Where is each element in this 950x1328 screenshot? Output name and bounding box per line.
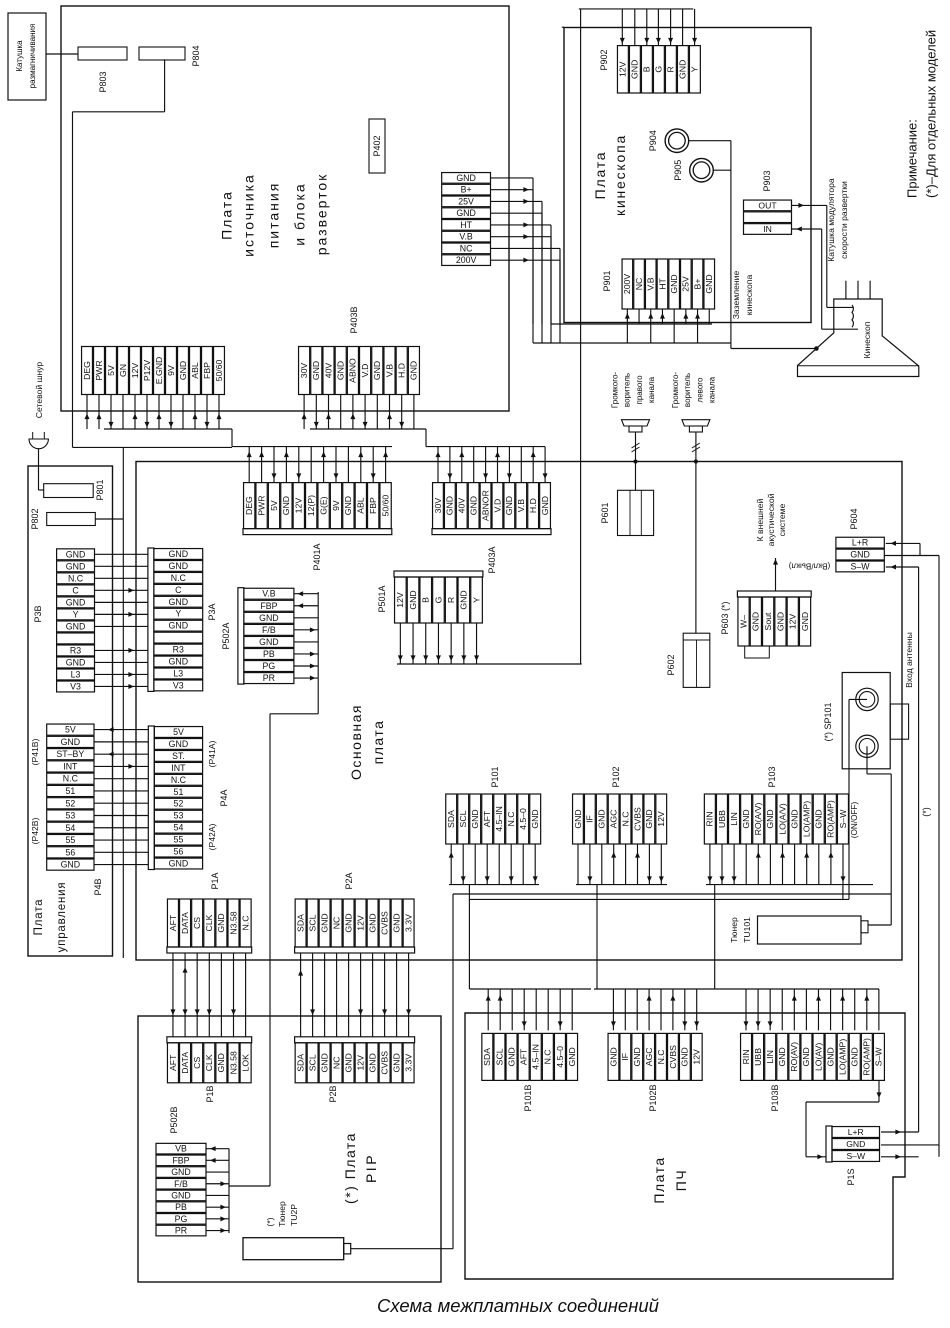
- svg-text:(P42B): (P42B): [30, 817, 40, 844]
- svg-text:GND: GND: [336, 361, 346, 380]
- svg-text:Кинескоп: Кинескоп: [862, 321, 872, 358]
- svg-text:PG: PG: [263, 661, 276, 671]
- svg-text:25V: 25V: [458, 196, 474, 206]
- wire P903 OUT to modulation coil: [792, 203, 854, 308]
- svg-text:(ON/OFF): (ON/OFF): [850, 802, 859, 839]
- wire plug to P801: [38, 449, 40, 490]
- svg-text:CS: CS: [192, 1057, 202, 1069]
- main board outline: [136, 462, 902, 961]
- wires P502A to bus: [229, 591, 318, 1186]
- svg-text:12V: 12V: [130, 363, 140, 379]
- svg-text:GND: GND: [169, 739, 189, 749]
- svg-text:40V: 40V: [323, 363, 333, 379]
- svg-text:CVBS: CVBS: [379, 911, 389, 935]
- svg-text:12V: 12V: [692, 1049, 702, 1065]
- svg-text:GND: GND: [66, 549, 86, 559]
- svg-text:IF: IF: [620, 1053, 630, 1061]
- svg-text:GND: GND: [678, 60, 688, 79]
- svg-text:P905: P905: [673, 160, 683, 181]
- connector P1S: [826, 1126, 880, 1186]
- P603 tab: [745, 646, 770, 658]
- svg-text:B: B: [421, 597, 431, 603]
- connector P802: [47, 513, 96, 526]
- svg-text:SCL: SCL: [307, 1054, 317, 1071]
- svg-text:GND: GND: [540, 496, 550, 515]
- svg-text:SCL: SCL: [458, 810, 468, 827]
- wires P403B left to bus: [85, 395, 233, 447]
- svg-text:ST–BY: ST–BY: [56, 749, 84, 759]
- svg-text:V.B: V.B: [459, 232, 473, 242]
- svg-text:P103B: P103B: [770, 1084, 780, 1111]
- right speaker wire: [635, 432, 637, 490]
- svg-text:N.C: N.C: [63, 774, 79, 784]
- connector P103: [704, 794, 848, 844]
- connector P1A: [167, 899, 252, 953]
- svg-text:(P41B): (P41B): [30, 738, 40, 765]
- connector P101: [446, 794, 541, 844]
- svg-text:GND: GND: [850, 1047, 860, 1066]
- svg-text:ПЧ: ПЧ: [673, 1169, 689, 1191]
- svg-text:AFT: AFT: [482, 810, 492, 827]
- svg-text:GND: GND: [66, 621, 86, 631]
- svg-text:PWR: PWR: [256, 495, 266, 515]
- svg-text:P4A: P4A: [219, 789, 229, 806]
- resistor P804: [139, 47, 185, 60]
- svg-text:правого: правого: [635, 375, 644, 405]
- svg-text:управления: управления: [56, 882, 68, 953]
- svg-text:RIN: RIN: [705, 812, 715, 827]
- wires into P403A: [436, 447, 548, 483]
- svg-text:SCL: SCL: [494, 1048, 504, 1065]
- svg-text:GND: GND: [789, 809, 799, 828]
- svg-text:SDA: SDA: [295, 914, 305, 932]
- svg-text:SCL: SCL: [307, 914, 317, 931]
- svg-text:GND: GND: [319, 1053, 329, 1072]
- svg-text:GND: GND: [391, 913, 401, 932]
- svg-text:Громкого-: Громкого-: [611, 372, 620, 409]
- wires P502B to bus: [206, 1146, 229, 1233]
- svg-text:40V: 40V: [457, 498, 467, 514]
- svg-text:4.5–0: 4.5–0: [518, 808, 528, 830]
- svg-text:GND: GND: [408, 590, 418, 609]
- svg-text:200V: 200V: [456, 255, 477, 265]
- wire SP101 to TU101: [867, 746, 891, 925]
- svg-text:LO(AV): LO(AV): [813, 1043, 823, 1071]
- svg-text:FBP: FBP: [260, 601, 277, 611]
- svg-text:LOK: LOK: [240, 1054, 250, 1072]
- wire ON/OFF route to SP101: [469, 699, 867, 899]
- svg-text:P402: P402: [372, 135, 382, 156]
- svg-text:H.D: H.D: [397, 363, 407, 378]
- svg-text:акустической: акустической: [766, 493, 776, 546]
- svg-text:GND: GND: [459, 590, 469, 609]
- svg-text:PB: PB: [175, 1202, 187, 1212]
- svg-text:Y: Y: [73, 609, 79, 619]
- wires P403B right to bus: [302, 395, 426, 447]
- svg-text:GND: GND: [61, 860, 81, 870]
- svg-text:12V: 12V: [788, 614, 798, 630]
- svg-text:AFT: AFT: [168, 914, 178, 931]
- svg-text:GND: GND: [445, 496, 455, 515]
- wire bus to P401A: [232, 446, 392, 448]
- svg-text:H.D: H.D: [528, 498, 538, 513]
- CRT board outline: [564, 28, 811, 323]
- connector P41A/P42A: [148, 726, 202, 870]
- svg-text:INT: INT: [171, 763, 186, 773]
- svg-text:P1B: P1B: [205, 1085, 215, 1102]
- svg-text:GND: GND: [846, 1139, 865, 1149]
- svg-text:PR: PR: [263, 673, 275, 683]
- svg-text:FBP: FBP: [368, 497, 378, 514]
- svg-text:SDA: SDA: [482, 1048, 492, 1066]
- wire P103B S-W to P1S: [806, 1080, 882, 1159]
- svg-text:RO(AMP): RO(AMP): [862, 1038, 872, 1076]
- connector P41B/P42B: [47, 724, 94, 870]
- svg-text:GND: GND: [850, 550, 870, 560]
- svg-text:S–W: S–W: [874, 1047, 884, 1067]
- connector P101B: [482, 1033, 578, 1080]
- mains plug symbol: [29, 432, 48, 449]
- svg-text:скорости развертки: скорости развертки: [839, 181, 849, 259]
- svg-text:NC: NC: [460, 243, 473, 253]
- svg-text:PG: PG: [175, 1214, 188, 1224]
- svg-text:12V: 12V: [355, 915, 365, 931]
- svg-text:Тюнер: Тюнер: [729, 917, 739, 943]
- svg-text:FBP: FBP: [202, 362, 212, 379]
- svg-text:5V: 5V: [173, 727, 184, 737]
- svg-text:GND: GND: [169, 561, 189, 571]
- svg-text:Сетевой шнур: Сетевой шнур: [34, 362, 44, 419]
- svg-text:P403A: P403A: [487, 546, 497, 573]
- svg-text:GND: GND: [468, 496, 478, 515]
- svg-text:V.B: V.B: [262, 589, 276, 599]
- svg-text:NC: NC: [331, 1057, 341, 1070]
- wires P1S right: [881, 1130, 939, 1160]
- connector P501A: [394, 571, 483, 623]
- connector P502A: [221, 588, 294, 684]
- svg-text:ABNO: ABNO: [348, 358, 358, 383]
- svg-text:12V: 12V: [618, 61, 628, 77]
- svg-text:плата: плата: [370, 720, 386, 765]
- svg-text:CVBS: CVBS: [668, 1045, 678, 1069]
- svg-text:5V: 5V: [269, 500, 279, 511]
- svg-text:P101B: P101B: [523, 1084, 533, 1111]
- svg-text:4.5–IN: 4.5–IN: [494, 806, 504, 832]
- svg-text:(*) SP101: (*) SP101: [823, 702, 833, 741]
- svg-text:DATA: DATA: [180, 1052, 190, 1074]
- svg-text:GND: GND: [470, 809, 480, 828]
- connector P403A: [432, 483, 551, 535]
- svg-text:ABL: ABL: [190, 362, 200, 379]
- svg-text:(Вкл/Выкл): (Вкл/Выкл): [789, 562, 831, 571]
- svg-text:N.C: N.C: [171, 775, 187, 785]
- svg-text:12V: 12V: [656, 811, 666, 827]
- svg-text:P2B: P2B: [328, 1085, 338, 1102]
- svg-text:P4B: P4B: [93, 878, 103, 895]
- svg-text:P401A: P401A: [312, 543, 322, 570]
- connector P601: [618, 490, 654, 535]
- svg-text:(*): (*): [265, 1217, 275, 1226]
- svg-text:размагничивания: размагничивания: [28, 24, 37, 89]
- svg-text:Громкого-: Громкого-: [671, 372, 680, 409]
- svg-text:50/60: 50/60: [380, 495, 390, 517]
- svg-text:E.GND: E.GND: [154, 357, 164, 385]
- svg-text:Y: Y: [690, 66, 700, 72]
- resistor P803: [78, 47, 127, 60]
- svg-text:P901: P901: [602, 270, 612, 291]
- svg-text:S–W: S–W: [851, 561, 871, 571]
- svg-text:NC: NC: [634, 278, 644, 291]
- IF board outline: [465, 1013, 905, 1279]
- svg-text:GND: GND: [169, 549, 189, 559]
- svg-text:CLK: CLK: [204, 1054, 214, 1071]
- connector P403B left half: [82, 347, 225, 395]
- connector P401A: [243, 483, 392, 535]
- svg-text:воритель: воритель: [623, 373, 632, 407]
- svg-text:TU2P: TU2P: [289, 1204, 299, 1226]
- svg-text:GND: GND: [216, 913, 226, 932]
- svg-text:GND: GND: [216, 1053, 226, 1072]
- svg-text:Y: Y: [471, 597, 481, 603]
- svg-text:GND: GND: [680, 1047, 690, 1066]
- svg-text:N.C: N.C: [171, 573, 187, 583]
- wires P103 down: [706, 844, 873, 989]
- svg-text:GND: GND: [169, 859, 189, 869]
- svg-text:RO(AV): RO(AV): [789, 1042, 799, 1072]
- svg-text:кинескопа: кинескопа: [612, 134, 628, 216]
- svg-text:GND: GND: [801, 1047, 811, 1066]
- svg-text:GND: GND: [704, 274, 714, 293]
- svg-text:GND: GND: [814, 809, 824, 828]
- velocity modulation coil arcs: [852, 305, 853, 327]
- svg-text:GND: GND: [169, 657, 189, 667]
- svg-text:P101: P101: [490, 766, 500, 787]
- connector P801: [44, 484, 93, 498]
- wires HV stack to P901: [491, 178, 731, 343]
- wires P102B from bus: [594, 989, 715, 1030]
- svg-text:53: 53: [174, 811, 184, 821]
- PIP board outline: [138, 1016, 441, 1282]
- svg-text:P803: P803: [98, 71, 108, 92]
- svg-text:P12V: P12V: [142, 360, 152, 381]
- svg-text:3.3V: 3.3V: [403, 1054, 413, 1072]
- svg-text:GND: GND: [597, 809, 607, 828]
- svg-text:GND: GND: [169, 621, 189, 631]
- svg-text:SDA: SDA: [446, 810, 456, 828]
- svg-text:Плата: Плата: [651, 1156, 667, 1203]
- svg-text:53: 53: [65, 811, 75, 821]
- svg-text:ABNOR: ABNOR: [480, 490, 490, 521]
- svg-text:P103: P103: [767, 766, 777, 787]
- svg-text:P601: P601: [600, 502, 610, 523]
- svg-text:DEG: DEG: [82, 361, 92, 380]
- svg-text:LO(AMP): LO(AMP): [801, 801, 811, 837]
- svg-text:GND: GND: [343, 913, 353, 932]
- svg-text:разверток: разверток: [313, 173, 329, 256]
- svg-text:питания: питания: [266, 182, 282, 249]
- svg-text:9V: 9V: [166, 365, 176, 376]
- svg-text:P902: P902: [599, 49, 609, 70]
- connector P2B: [295, 1037, 415, 1083]
- svg-text:UBB: UBB: [753, 1048, 763, 1066]
- control board outline: [28, 466, 113, 956]
- svg-text:LO(AMP): LO(AMP): [837, 1039, 847, 1075]
- svg-text:PR: PR: [175, 1226, 187, 1236]
- svg-text:GND: GND: [777, 1047, 787, 1066]
- svg-text:P501A: P501A: [377, 585, 387, 612]
- right speaker: [622, 420, 650, 432]
- svg-text:GND: GND: [171, 1190, 191, 1200]
- wire CRT top edge extension: [562, 26, 564, 28]
- svg-text:C: C: [175, 585, 182, 595]
- svg-text:Плата: Плата: [218, 190, 234, 240]
- svg-text:Вход антенны: Вход антенны: [904, 632, 914, 688]
- connector P902: [617, 46, 700, 93]
- svg-text:4.5–0: 4.5–0: [555, 1046, 565, 1068]
- svg-text:CVBS: CVBS: [379, 1051, 389, 1075]
- connector P403B right half: [299, 347, 420, 395]
- wire P603 to external audio: [775, 558, 777, 591]
- svg-text:P1S: P1S: [846, 1168, 856, 1185]
- svg-text:системе: системе: [777, 503, 787, 536]
- svg-text:51: 51: [174, 787, 184, 797]
- tuner TU101: [758, 916, 869, 944]
- svg-text:G: G: [654, 66, 664, 73]
- svg-text:30V: 30V: [299, 363, 309, 379]
- svg-text:GND: GND: [171, 1167, 191, 1177]
- svg-text:12V: 12V: [355, 1055, 365, 1071]
- power supply board outline: [61, 6, 509, 411]
- svg-text:12(P): 12(P): [306, 495, 316, 516]
- svg-text:N.C: N.C: [68, 573, 84, 583]
- wire P903 IN from modulation coil: [792, 227, 859, 330]
- wires P1A to P1B: [170, 953, 245, 1037]
- svg-text:DATA: DATA: [180, 912, 190, 934]
- svg-text:LIN: LIN: [765, 1050, 775, 1064]
- svg-text:SDA: SDA: [295, 1054, 305, 1072]
- svg-text:кинескопа: кинескопа: [744, 275, 754, 316]
- wire TU2P antenna: [351, 1248, 453, 1250]
- svg-text:52: 52: [65, 798, 75, 808]
- svg-text:PIP: PIP: [363, 1153, 379, 1183]
- svg-text:GND: GND: [765, 809, 775, 828]
- svg-text:CS: CS: [192, 917, 202, 929]
- svg-text:GND: GND: [66, 597, 86, 607]
- svg-text:P804: P804: [191, 45, 201, 66]
- CRT funnel (kinescope): [798, 299, 919, 377]
- svg-text:GND: GND: [66, 657, 86, 667]
- wires P2A to P2B: [298, 953, 411, 1037]
- svg-text:GND: GND: [800, 612, 810, 631]
- svg-text:Тюнер: Тюнер: [277, 1201, 287, 1227]
- connector P1B: [167, 1037, 252, 1083]
- svg-text:GND: GND: [409, 361, 419, 380]
- svg-text:GND: GND: [343, 1053, 353, 1072]
- svg-text:канала: канала: [708, 376, 717, 403]
- svg-text:V.B: V.B: [516, 499, 526, 512]
- svg-text:S–W: S–W: [838, 809, 848, 829]
- svg-text:56: 56: [174, 847, 184, 857]
- svg-text:P502A: P502A: [221, 622, 231, 649]
- svg-text:(P41A): (P41A): [207, 740, 217, 767]
- svg-text:N.C: N.C: [543, 1049, 553, 1064]
- wires P101 down: [449, 844, 539, 989]
- svg-text:GND: GND: [319, 913, 329, 932]
- svg-text:GND: GND: [66, 561, 86, 571]
- svg-text:GND: GND: [456, 173, 476, 183]
- svg-text:30V: 30V: [433, 498, 443, 514]
- connector P901: [622, 259, 715, 309]
- wire from P804 down and left: [73, 59, 233, 447]
- svg-text:GND: GND: [343, 496, 353, 515]
- svg-text:L3: L3: [71, 669, 81, 679]
- svg-text:P3B: P3B: [33, 605, 43, 622]
- svg-text:V.B: V.B: [384, 364, 394, 377]
- svg-text:P502B: P502B: [169, 1106, 179, 1133]
- svg-text:GND: GND: [775, 612, 785, 631]
- svg-text:LO(A/V): LO(A/V): [777, 803, 787, 834]
- svg-text:200V: 200V: [622, 274, 632, 294]
- svg-text:L+R: L+R: [848, 1127, 864, 1137]
- connector P2A: [295, 899, 415, 953]
- svg-text:воритель: воритель: [683, 373, 692, 407]
- svg-text:P603 (*): P603 (*): [720, 601, 730, 634]
- svg-text:P801: P801: [95, 479, 105, 500]
- svg-text:N.C: N.C: [240, 916, 250, 931]
- wires P41B to P41A: [94, 727, 148, 864]
- svg-text:(P42A): (P42A): [207, 823, 217, 850]
- svg-text:GND: GND: [573, 809, 583, 828]
- svg-text:GND: GND: [741, 809, 751, 828]
- svg-text:GND: GND: [632, 1047, 642, 1066]
- svg-text:DEG: DEG: [244, 496, 254, 515]
- wire P501A bus: [397, 663, 582, 665]
- svg-text:RO(A/V): RO(A/V): [753, 802, 763, 835]
- svg-text:P102: P102: [611, 766, 621, 787]
- svg-text:PB: PB: [263, 649, 275, 659]
- svg-text:NC: NC: [331, 917, 341, 930]
- svg-text:К внешней: К внешней: [755, 498, 765, 541]
- wires P101B from bus: [469, 989, 591, 1030]
- svg-text:4.5–IN: 4.5–IN: [531, 1044, 541, 1070]
- svg-text:V.D: V.D: [492, 499, 502, 513]
- svg-text:GND: GND: [456, 208, 476, 218]
- svg-text:P903: P903: [762, 170, 772, 191]
- svg-text:L+R: L+R: [852, 538, 868, 548]
- wires P501A down: [398, 623, 479, 664]
- wires P604 right: [884, 541, 939, 1145]
- svg-text:P904: P904: [648, 130, 658, 151]
- svg-text:P602: P602: [666, 654, 676, 675]
- tuner TU2P: [243, 1238, 351, 1260]
- svg-text:Заземление: Заземление: [731, 271, 741, 320]
- svg-text:GND: GND: [61, 737, 81, 747]
- svg-text:IF: IF: [585, 815, 595, 823]
- svg-text:Примечание:: Примечание:: [905, 119, 920, 198]
- svg-text:TU101: TU101: [742, 917, 752, 943]
- svg-text:GND: GND: [504, 496, 514, 515]
- svg-text:GND: GND: [281, 496, 291, 515]
- svg-text:GND: GND: [825, 1047, 835, 1066]
- svg-text:GND: GND: [178, 361, 188, 380]
- svg-text:P2A: P2A: [344, 872, 354, 889]
- svg-text:LIN: LIN: [729, 812, 739, 826]
- svg-text:GND: GND: [311, 361, 321, 380]
- connector SP101: [842, 673, 908, 769]
- svg-text:Плата: Плата: [33, 899, 45, 936]
- svg-text:GND: GND: [669, 274, 679, 293]
- svg-text:левого: левого: [695, 377, 704, 402]
